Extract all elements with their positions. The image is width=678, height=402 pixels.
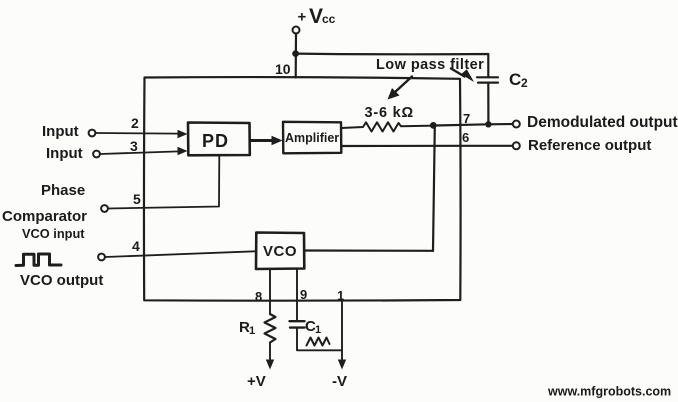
- wire input pin 3 to PD: [100, 147, 188, 155]
- node VCO output terminal pin 4: [98, 254, 105, 261]
- block VCO: [256, 233, 304, 270]
- svg-text:C: C: [509, 70, 521, 89]
- watermark www.mfgrobots.com: [547, 385, 671, 399]
- svg-text:3: 3: [130, 138, 138, 154]
- label amplifier: [285, 131, 339, 145]
- IC outline rectangle U1: [144, 77, 461, 301]
- block PD phase detector: [188, 123, 250, 156]
- svg-text:10: 10: [275, 61, 291, 77]
- pin label 10: [275, 61, 291, 77]
- block amplifier A1: [283, 122, 341, 154]
- pin label 5: [133, 191, 141, 207]
- label VCO: [263, 243, 297, 260]
- svg-text:PD: PD: [202, 131, 229, 151]
- svg-text:4: 4: [132, 238, 140, 254]
- wire reference output line pin 6: [342, 145, 513, 147]
- label input 1: [42, 123, 79, 140]
- wire VCO output to feedback line: [305, 249, 434, 252]
- wire pin 1 to -V arrow: [338, 301, 346, 370]
- svg-text:+: +: [298, 9, 307, 26]
- node demodulated output terminal: [513, 121, 520, 128]
- svg-text:Amplifier: Amplifier: [285, 131, 339, 145]
- pin label 6: [462, 130, 469, 145]
- svg-text:Low pass filter: Low pass filter: [376, 57, 484, 73]
- node phase comparator VCO input terminal pin 5: [101, 205, 108, 212]
- label comparator: [2, 208, 87, 225]
- svg-text:VCO input: VCO input: [22, 226, 85, 241]
- svg-text:Input: Input: [42, 123, 79, 140]
- svg-text:1: 1: [337, 288, 344, 303]
- label +V: [247, 373, 266, 390]
- svg-text:V: V: [309, 5, 323, 28]
- svg-text:VCO output: VCO output: [20, 272, 103, 289]
- capacitor C2: [477, 77, 498, 82]
- svg-text:cc: cc: [322, 12, 336, 26]
- label +Vcc: [298, 5, 336, 28]
- pin label 9: [300, 287, 307, 302]
- svg-text:Demodulated output: Demodulated output: [527, 114, 678, 131]
- resistor 3-6k in low pass filter: [342, 122, 435, 131]
- pin label 2: [131, 115, 139, 131]
- arrow low pass filter to resistor: [388, 77, 413, 100]
- label VCO input: [22, 226, 85, 241]
- wire PD output to amplifier: [251, 136, 283, 145]
- svg-text:1: 1: [249, 325, 255, 337]
- node input terminal pin 3: [93, 151, 100, 158]
- label reference output: [528, 137, 651, 154]
- wire demodulated output line pin 7: [435, 124, 513, 126]
- junction Vcc node dot: [292, 50, 299, 57]
- node input terminal pin 2: [89, 130, 96, 137]
- junction dot resistor feedback node: [430, 122, 437, 129]
- svg-text:Phase: Phase: [41, 182, 85, 199]
- wire pin 4 to VCO: [105, 251, 256, 257]
- pin label 4: [132, 238, 140, 254]
- svg-text:www.mfgrobots.com: www.mfgrobots.com: [547, 385, 671, 399]
- junction dot under C2: [485, 121, 491, 127]
- svg-text:7: 7: [463, 111, 470, 126]
- label VCO output: [20, 272, 103, 289]
- svg-text:Comparator: Comparator: [2, 208, 87, 225]
- capacitor C1: [290, 321, 305, 327]
- svg-text:+V: +V: [247, 373, 266, 390]
- label input 2: [46, 145, 83, 162]
- wire VCO pin 8 down: [269, 269, 271, 314]
- svg-text:Reference output: Reference output: [528, 137, 651, 154]
- label low pass filter: [376, 57, 484, 73]
- label C1: [305, 318, 321, 336]
- svg-text:2: 2: [131, 115, 139, 131]
- arrow low pass filter to C2: [451, 69, 474, 83]
- pin label 1: [337, 288, 344, 303]
- label C2: [509, 70, 528, 90]
- svg-text:6: 6: [462, 130, 469, 145]
- wire Vcc node to C2 top: [296, 54, 489, 77]
- wire feedback vertical to demodulated node: [433, 126, 435, 251]
- squiggle zigzag below C1: [307, 338, 330, 346]
- svg-text:2: 2: [521, 76, 528, 90]
- wire C2 bottom to output node: [487, 83, 489, 124]
- label phase: [41, 182, 85, 199]
- svg-text:-V: -V: [332, 373, 347, 390]
- wire Vcc to pin 10: [295, 34, 297, 78]
- svg-text:9: 9: [300, 287, 307, 302]
- wire pin 5 to PD bottom: [108, 155, 219, 208]
- label 3-6 kOhm: [365, 105, 414, 121]
- square wave symbol VCO output: [16, 254, 61, 266]
- label R1: [239, 319, 255, 337]
- label PD: [202, 131, 229, 151]
- wire C1 bottom to pin 1 line: [297, 328, 342, 350]
- node reference output terminal: [513, 142, 520, 149]
- pin label 8: [255, 289, 262, 304]
- wire VCO pin 9 down: [296, 269, 298, 320]
- svg-text:3-6 kΩ: 3-6 kΩ: [365, 105, 414, 121]
- label -V: [332, 373, 347, 390]
- pin label 3: [130, 138, 138, 154]
- svg-text:5: 5: [133, 191, 141, 207]
- wire R1 to +V arrow: [266, 343, 274, 370]
- resistor R1: [265, 314, 276, 343]
- label demodulated output: [527, 114, 678, 131]
- svg-text:Input: Input: [46, 145, 83, 162]
- node +Vcc terminal: [293, 27, 300, 34]
- svg-text:1: 1: [315, 324, 321, 336]
- pin label 7: [463, 111, 470, 126]
- wire input pin 2 to PD: [96, 130, 188, 138]
- svg-text:8: 8: [255, 289, 262, 304]
- svg-text:VCO: VCO: [263, 243, 297, 260]
